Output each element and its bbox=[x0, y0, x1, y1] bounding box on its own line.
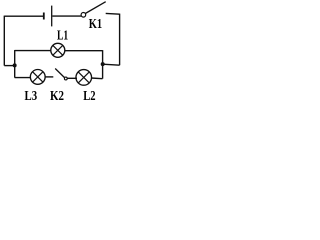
wire left vertical bbox=[3, 16, 5, 66]
wire top-left horizontal bbox=[4, 15, 43, 17]
wire K2 to L2 bbox=[68, 77, 78, 79]
wire L3 to K2 bbox=[45, 76, 54, 78]
switch K1 pivot circle bbox=[81, 13, 86, 18]
node junction left bbox=[13, 63, 17, 67]
switch K2 pivot circle bbox=[64, 77, 67, 80]
wire left stub to junction bbox=[4, 65, 14, 67]
switch K1 blade bbox=[85, 2, 105, 14]
battery positive plate bbox=[51, 6, 53, 27]
lamp L1 bbox=[51, 43, 65, 57]
wire top-right horizontal bbox=[106, 12, 120, 15]
switch K2 blade bbox=[55, 69, 64, 78]
wire middle left of L1 bbox=[15, 50, 52, 52]
wire right vertical bbox=[119, 14, 121, 66]
svg-text:K1: K1 bbox=[89, 17, 102, 32]
svg-text:L3: L3 bbox=[25, 89, 38, 102]
lamp L3 bbox=[30, 70, 45, 85]
wire battery to K1 bbox=[52, 15, 81, 17]
wire L2 to right branch bbox=[91, 77, 103, 80]
node junction right bbox=[101, 62, 105, 66]
svg-text:L2: L2 bbox=[83, 89, 95, 102]
wire middle right of L1 bbox=[65, 50, 103, 52]
battery negative plate bbox=[43, 13, 45, 20]
wire right stub to junction bbox=[103, 64, 120, 65]
wire bottom left of L3 bbox=[15, 77, 31, 79]
lamp L2 bbox=[76, 70, 92, 86]
wire left branch vertical bbox=[14, 50, 16, 78]
wire right branch vertical bbox=[102, 50, 104, 79]
svg-text:L1: L1 bbox=[57, 29, 68, 44]
svg-text:K2: K2 bbox=[50, 89, 64, 102]
